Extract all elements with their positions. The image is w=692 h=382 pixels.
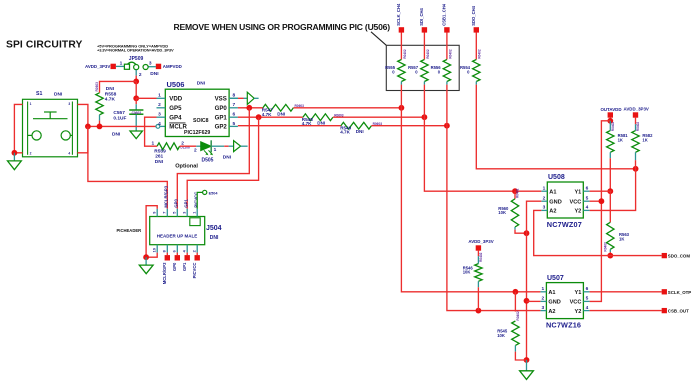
svg-text:DNI: DNI bbox=[112, 132, 121, 138]
svg-text:2: 2 bbox=[30, 152, 32, 156]
svg-text:3: 3 bbox=[149, 61, 152, 67]
svg-text:6: 6 bbox=[173, 250, 177, 252]
svg-text:AVDD_3P3V: AVDD_3P3V bbox=[468, 239, 493, 244]
svg-text:1: 1 bbox=[30, 102, 32, 106]
svg-text:SDO_COM: SDO_COM bbox=[668, 254, 691, 259]
svg-text:2: 2 bbox=[139, 72, 142, 78]
svg-text:DNI: DNI bbox=[277, 111, 285, 116]
svg-text:4: 4 bbox=[586, 205, 589, 211]
svg-text:1: 1 bbox=[214, 147, 217, 153]
svg-text:DNI: DNI bbox=[223, 154, 232, 160]
svg-text:4.7K: 4.7K bbox=[340, 130, 350, 135]
svg-text:R558: R558 bbox=[105, 91, 117, 97]
svg-text:VCC: VCC bbox=[569, 199, 581, 205]
svg-text:R0402: R0402 bbox=[611, 122, 615, 132]
svg-text:1: 1 bbox=[543, 186, 546, 192]
svg-text:A1: A1 bbox=[549, 189, 556, 195]
svg-text:Y2: Y2 bbox=[574, 209, 581, 215]
svg-text:7: 7 bbox=[232, 102, 235, 108]
svg-text:DNI: DNI bbox=[210, 235, 219, 241]
svg-text:REMOVE WHEN USING OR PROGRAMMI: REMOVE WHEN USING OR PROGRAMMING PIC (U5… bbox=[174, 22, 391, 32]
svg-text:1: 1 bbox=[152, 140, 155, 146]
svg-text:CSB1_CH4: CSB1_CH4 bbox=[442, 3, 447, 26]
svg-text:J504: J504 bbox=[206, 225, 222, 232]
svg-text:Y2: Y2 bbox=[575, 309, 582, 315]
svg-text:NC7WZ16: NC7WZ16 bbox=[546, 321, 581, 330]
svg-text:R0402: R0402 bbox=[478, 49, 482, 59]
svg-text:3: 3 bbox=[158, 112, 161, 118]
svg-text:GND: GND bbox=[548, 300, 560, 306]
svg-text:GP0: GP0 bbox=[174, 199, 179, 208]
svg-text:2: 2 bbox=[543, 196, 546, 202]
svg-text:1K: 1K bbox=[619, 236, 624, 241]
svg-text:SDO_CH4: SDO_CH4 bbox=[471, 5, 476, 25]
svg-text:GP0: GP0 bbox=[215, 105, 228, 112]
svg-text:5: 5 bbox=[586, 196, 589, 202]
svg-text:SPI CIRCUITRY: SPI CIRCUITRY bbox=[6, 40, 82, 51]
svg-text:4: 4 bbox=[68, 152, 70, 156]
svg-text:DNI: DNI bbox=[197, 80, 206, 86]
svg-text:A1: A1 bbox=[548, 290, 555, 296]
svg-text:VDD: VDD bbox=[169, 96, 182, 103]
svg-text:E504: E504 bbox=[209, 191, 219, 195]
svg-text:R0603: R0603 bbox=[295, 104, 305, 108]
svg-text:U506: U506 bbox=[167, 80, 185, 89]
svg-text:SCLK_OTP: SCLK_OTP bbox=[668, 290, 691, 295]
svg-text:R0402: R0402 bbox=[448, 49, 452, 59]
svg-text:JP509: JP509 bbox=[129, 56, 144, 62]
svg-text:3: 3 bbox=[543, 205, 546, 211]
svg-text:OUTAVDD: OUTAVDD bbox=[600, 107, 621, 112]
svg-text:R0402: R0402 bbox=[479, 252, 483, 262]
svg-text:10K: 10K bbox=[497, 333, 505, 338]
svg-text:U507: U507 bbox=[547, 275, 564, 282]
svg-text:PICHEADER: PICHEADER bbox=[117, 228, 142, 233]
svg-text:SOIC8: SOIC8 bbox=[193, 118, 209, 124]
svg-text:R0603: R0603 bbox=[334, 113, 344, 117]
svg-text:GP1: GP1 bbox=[182, 262, 187, 271]
svg-text:C557: C557 bbox=[113, 110, 125, 116]
svg-text:PICVCC: PICVCC bbox=[192, 263, 197, 279]
svg-text:4: 4 bbox=[586, 305, 589, 311]
svg-text:10: 10 bbox=[152, 248, 156, 252]
svg-text:6: 6 bbox=[232, 112, 235, 118]
svg-text:Optional: Optional bbox=[175, 163, 198, 169]
svg-text:R0402: R0402 bbox=[516, 311, 520, 321]
svg-text:R0402: R0402 bbox=[403, 49, 407, 59]
svg-text:NC7WZ07: NC7WZ07 bbox=[547, 220, 582, 229]
svg-text:SDI_CH4: SDI_CH4 bbox=[419, 7, 424, 25]
svg-text:PIC12F629: PIC12F629 bbox=[184, 130, 210, 136]
svg-text:3: 3 bbox=[68, 102, 70, 106]
svg-text:5: 5 bbox=[232, 121, 235, 127]
svg-text:MCLR/GP3: MCLR/GP3 bbox=[164, 185, 169, 207]
svg-text:1: 1 bbox=[192, 212, 196, 214]
svg-text:R0402: R0402 bbox=[636, 122, 640, 132]
svg-text:C0603: C0603 bbox=[132, 111, 142, 115]
svg-text:10K: 10K bbox=[498, 210, 506, 215]
svg-text:GP4: GP4 bbox=[169, 114, 182, 121]
svg-text:AVDD_3P3V: AVDD_3P3V bbox=[624, 107, 649, 112]
svg-text:VSS: VSS bbox=[215, 96, 227, 103]
svg-text:3: 3 bbox=[182, 212, 186, 214]
svg-text:3: 3 bbox=[541, 305, 544, 311]
svg-text:CSB_OUT: CSB_OUT bbox=[668, 309, 689, 314]
svg-text:R0603: R0603 bbox=[373, 122, 383, 126]
svg-text:GP2: GP2 bbox=[215, 124, 228, 131]
svg-text:GP0: GP0 bbox=[172, 262, 177, 271]
svg-text:R0402: R0402 bbox=[426, 49, 430, 59]
svg-text:D505: D505 bbox=[202, 157, 214, 163]
svg-text:0.1UF: 0.1UF bbox=[113, 116, 126, 122]
svg-text:PICVCC: PICVCC bbox=[194, 192, 199, 208]
svg-text:R0603: R0603 bbox=[95, 82, 99, 92]
svg-text:1: 1 bbox=[120, 60, 123, 66]
svg-text:1K: 1K bbox=[618, 137, 623, 142]
svg-text:HEADER UP MALE: HEADER UP MALE bbox=[157, 233, 197, 238]
svg-text:2: 2 bbox=[541, 296, 544, 302]
svg-text:DNI: DNI bbox=[155, 159, 164, 165]
svg-text:Y1: Y1 bbox=[574, 189, 581, 195]
svg-text:DNI: DNI bbox=[54, 92, 63, 98]
svg-text:5: 5 bbox=[173, 212, 177, 214]
svg-text:2: 2 bbox=[158, 102, 161, 108]
svg-text:7: 7 bbox=[163, 212, 167, 214]
svg-text:2: 2 bbox=[192, 250, 196, 252]
svg-text:4.7K: 4.7K bbox=[262, 112, 272, 117]
svg-text:8: 8 bbox=[163, 250, 167, 252]
svg-text:1: 1 bbox=[158, 93, 161, 99]
svg-text:DNI: DNI bbox=[356, 129, 364, 134]
svg-text:A2: A2 bbox=[548, 309, 555, 315]
svg-text:GND: GND bbox=[549, 199, 561, 205]
svg-text:GP1: GP1 bbox=[184, 199, 189, 208]
svg-text:4: 4 bbox=[158, 121, 161, 127]
svg-text:+3.3V=NORMAL OPERATION=AVDD_3P: +3.3V=NORMAL OPERATION=AVDD_3P3V bbox=[97, 48, 174, 53]
svg-text:1: 1 bbox=[541, 286, 544, 292]
svg-text:2: 2 bbox=[194, 147, 197, 153]
svg-text:6: 6 bbox=[586, 286, 589, 292]
svg-text:R0402: R0402 bbox=[516, 188, 520, 198]
svg-text:261: 261 bbox=[155, 154, 163, 160]
svg-text:VCC: VCC bbox=[570, 300, 582, 306]
svg-text:SCLK_CH4: SCLK_CH4 bbox=[396, 3, 401, 26]
svg-text:A2: A2 bbox=[549, 209, 556, 215]
svg-text:DNI: DNI bbox=[317, 121, 325, 126]
svg-text:10K: 10K bbox=[463, 270, 471, 275]
svg-text:GP1: GP1 bbox=[215, 114, 228, 121]
svg-text:1K: 1K bbox=[642, 137, 647, 142]
svg-text:DNI: DNI bbox=[106, 86, 115, 92]
svg-text:R559: R559 bbox=[154, 148, 166, 154]
svg-text:DNI: DNI bbox=[150, 71, 159, 77]
svg-text:4.7K: 4.7K bbox=[105, 96, 116, 102]
svg-text:U508: U508 bbox=[548, 174, 565, 181]
svg-text:6: 6 bbox=[586, 186, 589, 192]
svg-text:5: 5 bbox=[586, 296, 589, 302]
svg-text:AVDD_3P3V: AVDD_3P3V bbox=[85, 64, 110, 69]
svg-text:MCLR/GP3: MCLR/GP3 bbox=[162, 262, 167, 284]
svg-text:GP5: GP5 bbox=[169, 105, 182, 112]
svg-text:AMPVDD: AMPVDD bbox=[163, 64, 182, 69]
svg-text:9: 9 bbox=[152, 212, 156, 214]
svg-text:S1: S1 bbox=[36, 91, 42, 97]
svg-text:Y1: Y1 bbox=[575, 290, 582, 296]
